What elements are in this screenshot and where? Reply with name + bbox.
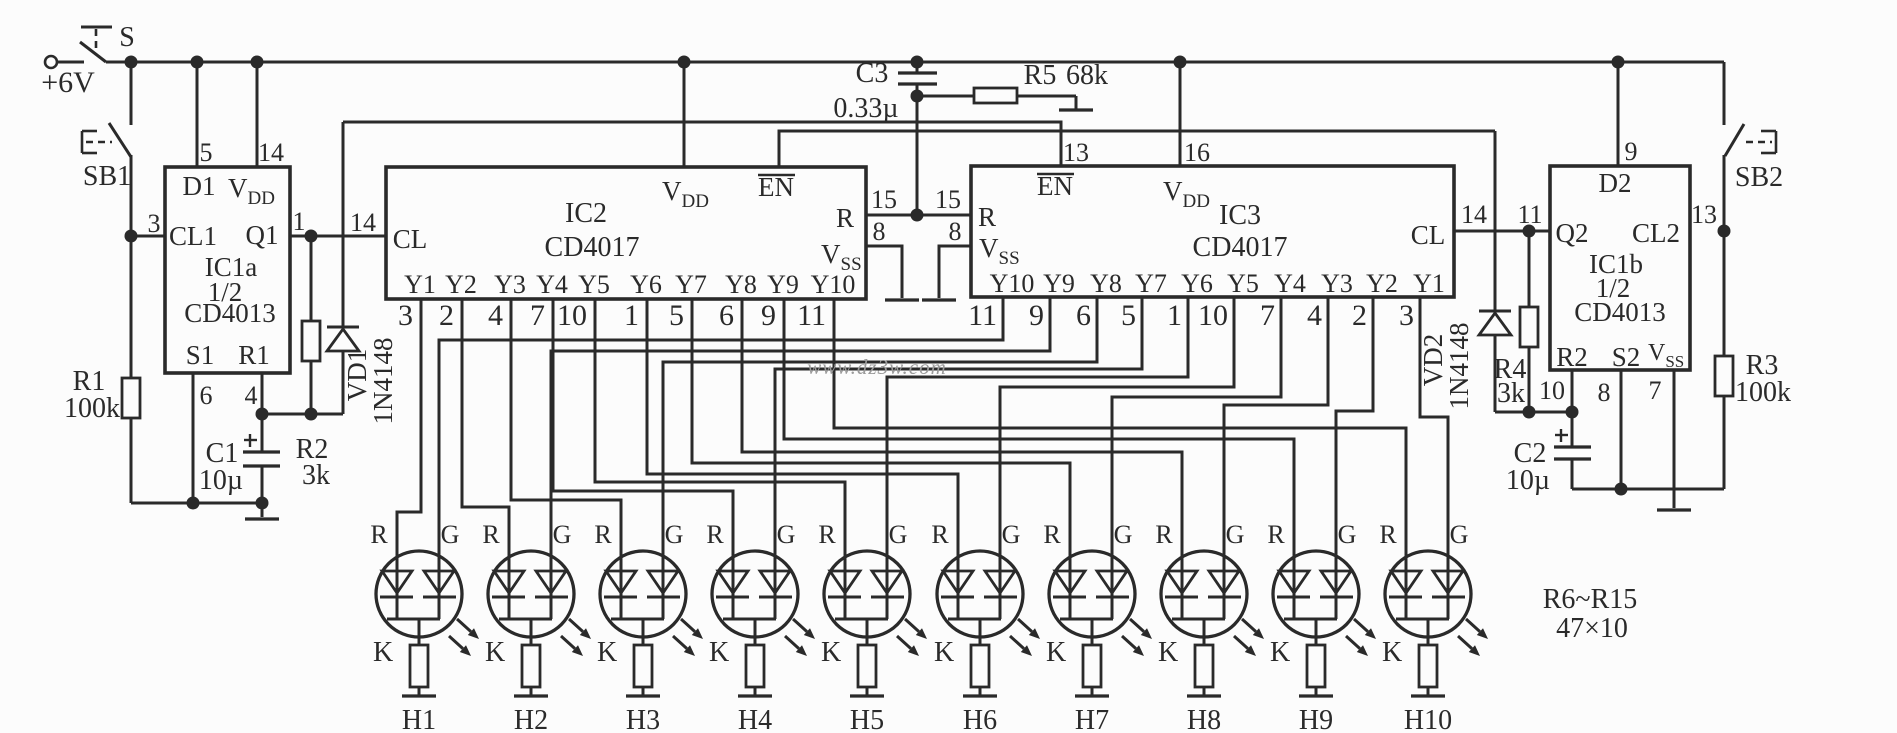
resistor R12 47 <box>1083 645 1101 687</box>
wire IC3 Y4 to H7.G <box>1112 297 1281 597</box>
wire SB1 lower to CL1 <box>130 155 133 236</box>
svg-text:R: R <box>818 520 836 549</box>
svg-text:H7: H7 <box>1075 705 1109 733</box>
light arrows H9 <box>1354 619 1368 632</box>
svg-text:H9: H9 <box>1299 705 1333 733</box>
resistor R10 47 <box>858 645 876 687</box>
wire IC3 Y5 to H6.G <box>1000 297 1234 597</box>
svg-text:3k: 3k <box>1497 378 1525 409</box>
pin 10 wire R2 (IC1b) <box>1571 370 1574 412</box>
svg-text:CD4013: CD4013 <box>184 298 276 328</box>
ground (H3) <box>626 694 660 697</box>
svg-text:C3: C3 <box>856 58 889 89</box>
wire IC2 Y9 to H9.R <box>784 299 1294 597</box>
svg-text:H8: H8 <box>1187 705 1221 733</box>
node CL1 <box>125 230 138 243</box>
wire IC3 Y8 to H3.G <box>663 297 1097 597</box>
svg-text:Y3: Y3 <box>1321 269 1353 298</box>
pin 9 wire D2 <box>1617 62 1620 166</box>
svg-text:H3: H3 <box>626 705 660 733</box>
svg-text:7: 7 <box>530 299 545 332</box>
svg-text:IC2: IC2 <box>565 198 607 229</box>
svg-text:3: 3 <box>398 299 413 332</box>
ground (IC1b VSS) <box>1657 508 1691 511</box>
wire reset node <box>262 413 343 416</box>
svg-text:2: 2 <box>1352 299 1367 332</box>
light arrows H2 <box>569 619 583 632</box>
LED H6 bicolor <box>937 551 1023 637</box>
svg-text:5: 5 <box>669 299 684 332</box>
wire Q1 to CL <box>290 235 386 238</box>
node supply-SB1 <box>125 56 138 69</box>
svg-text:G: G <box>1226 520 1245 549</box>
wire CL1 stub <box>131 235 165 238</box>
svg-text:K: K <box>934 637 954 668</box>
light arrows H5 <box>905 619 919 632</box>
svg-text:K: K <box>709 637 729 668</box>
svg-text:K: K <box>1046 637 1066 668</box>
light arrows H8 <box>1242 619 1256 632</box>
ground (R5) <box>1059 108 1093 111</box>
node C1-gnd <box>256 497 269 510</box>
svg-text:8: 8 <box>949 217 962 246</box>
svg-text:Y6: Y6 <box>1181 269 1213 298</box>
svg-text:Q2: Q2 <box>1556 218 1589 248</box>
resistor R11 47 <box>971 645 989 687</box>
wire IC3 VDD <box>1179 62 1182 166</box>
node supply-pin5 <box>191 56 204 69</box>
svg-text:EN: EN <box>1037 171 1073 201</box>
svg-text:H4: H4 <box>738 705 772 733</box>
pin 14 wire VDD <box>256 62 259 167</box>
svg-text:8: 8 <box>1598 378 1611 407</box>
svg-text:1: 1 <box>624 299 639 332</box>
wire IC3 Y2 to H9.G <box>1336 297 1373 597</box>
svg-text:1N4148: 1N4148 <box>1444 323 1474 410</box>
svg-text:Y4: Y4 <box>536 270 568 299</box>
svg-text:CD4017: CD4017 <box>545 232 640 263</box>
svg-text:SB2: SB2 <box>1735 162 1783 193</box>
LED H5 bicolor <box>824 551 910 637</box>
resistor R9 47 <box>746 645 764 687</box>
svg-text:47×10: 47×10 <box>1556 613 1628 644</box>
svg-text:SB1: SB1 <box>83 161 131 192</box>
svg-text:R: R <box>370 520 388 549</box>
resistor R5 68k <box>917 95 974 98</box>
svg-text:10: 10 <box>1539 376 1565 405</box>
svg-text:CL: CL <box>1411 220 1446 250</box>
svg-text:D1: D1 <box>183 171 216 201</box>
svg-text:G: G <box>889 520 908 549</box>
wire SB1 upper <box>130 62 133 125</box>
ground (H10) <box>1411 694 1445 697</box>
ground (IC3 VSS) <box>922 298 956 301</box>
svg-text:1: 1 <box>1167 299 1182 332</box>
svg-text:K: K <box>1270 637 1290 668</box>
svg-text:6: 6 <box>200 381 213 410</box>
wire IC2 Y5 to H5.R <box>595 299 845 597</box>
node supply-IC3VDD <box>1174 56 1187 69</box>
light arrows H7 <box>1130 619 1144 632</box>
resistor R8 47 <box>634 645 652 687</box>
resistor R15 47 <box>1419 645 1437 687</box>
svg-text:+6V: +6V <box>41 66 95 99</box>
light arrows H4 <box>793 619 807 632</box>
svg-text:Q1: Q1 <box>246 220 279 250</box>
svg-text:4: 4 <box>488 299 503 332</box>
svg-text:R2: R2 <box>1556 342 1588 372</box>
svg-text:EN: EN <box>758 172 794 202</box>
ground (H7) <box>1075 694 1109 697</box>
pin 7 wire VSS (IC1b) <box>1673 370 1676 508</box>
svg-text:15: 15 <box>871 185 897 214</box>
svg-text:G: G <box>1002 520 1021 549</box>
node R2-bottom <box>305 408 318 421</box>
svg-text:5: 5 <box>1121 299 1136 332</box>
LED H7 bicolor <box>1049 551 1135 637</box>
svg-text:Y5: Y5 <box>578 270 610 299</box>
svg-text:CD4017: CD4017 <box>1193 232 1288 263</box>
wire IC2 Y2 to H2.R <box>462 299 509 597</box>
wire IC2 EN to Q2 line <box>779 131 1495 167</box>
svg-text:G: G <box>553 520 572 549</box>
svg-text:R: R <box>482 520 500 549</box>
diode VD1 1N4148 <box>342 122 345 327</box>
diode VD2 1N4148 <box>1494 131 1497 311</box>
wire IC3 Y1 to H10.G <box>1420 297 1448 597</box>
resistor R14 47 <box>1307 645 1325 687</box>
svg-text:9: 9 <box>1029 299 1044 332</box>
light arrows H1 <box>457 619 471 632</box>
svg-text:R: R <box>1267 520 1285 549</box>
svg-text:13: 13 <box>1063 138 1089 167</box>
svg-text:Y1: Y1 <box>1413 269 1445 298</box>
svg-text:Y9: Y9 <box>1043 269 1075 298</box>
wire IC3 Y7 to H4.G <box>775 297 1142 597</box>
svg-text:R6~R15: R6~R15 <box>1543 584 1638 615</box>
svg-text:K: K <box>485 637 505 668</box>
svg-text:14: 14 <box>350 208 376 237</box>
svg-text:IC3: IC3 <box>1219 200 1261 231</box>
svg-text:G: G <box>441 520 460 549</box>
node pin10-C2 <box>1566 406 1579 419</box>
wire R3 bottom to C2 <box>1572 488 1724 491</box>
svg-text:2: 2 <box>439 299 454 332</box>
wire IC3 Y3 to H8.G <box>1224 297 1328 597</box>
ground (IC2 VSS) <box>885 298 919 301</box>
node supply-pin14 <box>251 56 264 69</box>
svg-text:11: 11 <box>797 299 826 332</box>
svg-text:8: 8 <box>873 217 886 246</box>
pin 4 wire R1 <box>261 373 264 414</box>
pin 6 wire S1 <box>192 373 195 503</box>
svg-text:5: 5 <box>200 138 213 167</box>
svg-text:Y6: Y6 <box>630 270 662 299</box>
node CL2-R3 <box>1718 225 1731 238</box>
svg-text:H10: H10 <box>1404 705 1452 733</box>
svg-text:G: G <box>665 520 684 549</box>
node S1-gnd <box>187 497 200 510</box>
wire IC2 Y4 to H4.R <box>553 299 733 597</box>
wire IC2 Y6 to H6.R <box>647 299 958 597</box>
ground (H1) <box>402 694 436 697</box>
svg-text:S2: S2 <box>1612 342 1641 372</box>
svg-text:Y7: Y7 <box>1135 269 1167 298</box>
svg-text:R5: R5 <box>1024 60 1057 91</box>
node supply-IC2VDD <box>678 56 691 69</box>
svg-text:R: R <box>706 520 724 549</box>
capacitor C3 0.33u <box>916 62 919 73</box>
svg-text:Y4: Y4 <box>1274 269 1306 298</box>
wire IC2 Y7 to H7.R <box>692 299 1070 597</box>
LED H4 bicolor <box>712 551 798 637</box>
svg-text:H1: H1 <box>402 705 436 733</box>
wire IC2 Y10 to H10.R <box>834 299 1406 597</box>
svg-text:14: 14 <box>258 138 284 167</box>
resistor R2 3k <box>310 236 313 321</box>
resistor R3 100k <box>1723 231 1726 356</box>
resistor R4 3k <box>1528 231 1531 307</box>
svg-text:10µ: 10µ <box>1506 465 1550 496</box>
svg-text:100k: 100k <box>1735 377 1791 408</box>
svg-text:H6: H6 <box>963 705 997 733</box>
capacitor C1 10u <box>261 414 264 452</box>
svg-text:11: 11 <box>968 299 997 332</box>
svg-text:Y3: Y3 <box>494 270 526 299</box>
wire IC2 Y1 to H1.R <box>397 299 421 597</box>
svg-text:Y9: Y9 <box>767 270 799 299</box>
wire IC2 Y8 to H8.R <box>742 299 1182 597</box>
svg-text:0.33µ: 0.33µ <box>833 93 898 124</box>
LED H8 bicolor <box>1161 551 1247 637</box>
light arrows H3 <box>681 619 695 632</box>
wire SB2 to CL2 <box>1723 155 1726 231</box>
wire top supply rail <box>106 61 1724 64</box>
svg-text:H5: H5 <box>850 705 884 733</box>
ground (H9) <box>1299 694 1333 697</box>
svg-text:CL2: CL2 <box>1632 218 1680 248</box>
ground (C1) <box>261 503 264 517</box>
svg-text:K: K <box>821 637 841 668</box>
wire IC2 Y3 to H3.R <box>511 299 621 597</box>
power terminal +6V <box>45 56 57 68</box>
svg-text:14: 14 <box>1461 200 1487 229</box>
resistor R7 47 <box>522 645 540 687</box>
svg-text:CL1: CL1 <box>169 221 217 251</box>
LED H9 bicolor <box>1273 551 1359 637</box>
ground (H6) <box>963 694 997 697</box>
light arrows H6 <box>1018 619 1032 632</box>
node C3-R5 <box>911 90 924 103</box>
svg-text:G: G <box>777 520 796 549</box>
capacitor C2 10u <box>1571 412 1574 447</box>
svg-text:R: R <box>1043 520 1061 549</box>
wire IC3 Y6 to H5.G <box>887 297 1188 597</box>
wire IC3 EN to Q1 line <box>343 122 1061 166</box>
light arrows H10 <box>1466 619 1480 632</box>
svg-text:10: 10 <box>1198 299 1228 332</box>
pin 8 VSS stub (IC3) <box>939 246 971 298</box>
svg-text:G: G <box>1338 520 1357 549</box>
svg-text:K: K <box>373 637 393 668</box>
svg-text:10: 10 <box>557 299 587 332</box>
svg-text:www.dz3w.com: www.dz3w.com <box>807 355 947 379</box>
svg-text:4: 4 <box>1307 299 1322 332</box>
ground (H8) <box>1187 694 1221 697</box>
pushbutton SB2 <box>1723 62 1726 125</box>
node Q1-R2 <box>305 230 318 243</box>
svg-text:G: G <box>1450 520 1469 549</box>
wire bottom-left ground bus <box>131 502 262 505</box>
svg-text:10µ: 10µ <box>199 465 243 496</box>
svg-text:R: R <box>1155 520 1173 549</box>
svg-text:1N4148: 1N4148 <box>368 338 398 425</box>
svg-text:Y10: Y10 <box>811 270 856 299</box>
wire VD2/R4 to pin10 <box>1495 411 1572 414</box>
node supply-C3 <box>911 56 924 69</box>
svg-text:Y7: Y7 <box>675 270 707 299</box>
svg-text:Y1: Y1 <box>404 270 436 299</box>
ground (H2) <box>514 694 548 697</box>
svg-text:R1: R1 <box>238 340 270 370</box>
svg-text:7: 7 <box>1260 299 1275 332</box>
node R1-pin4 <box>256 408 269 421</box>
node Q2-R4 <box>1523 225 1536 238</box>
LED H2 bicolor <box>488 551 574 637</box>
LED H1 bicolor <box>376 551 462 637</box>
svg-text:4: 4 <box>245 381 258 410</box>
svg-text:1: 1 <box>293 207 306 236</box>
svg-text:K: K <box>597 637 617 668</box>
svg-text:S: S <box>119 22 135 53</box>
svg-text:Y8: Y8 <box>725 270 757 299</box>
svg-text:D2: D2 <box>1599 168 1632 198</box>
pin 5 wire D1 <box>196 62 199 167</box>
svg-text:15: 15 <box>935 185 961 214</box>
pin 8 VSS stub (IC2) <box>866 246 902 298</box>
flip-flop IC1b 1/2 CD4013 <box>1550 166 1690 370</box>
svg-text:Y10: Y10 <box>990 269 1035 298</box>
svg-text:3: 3 <box>1399 299 1414 332</box>
svg-text:Y2: Y2 <box>1366 269 1398 298</box>
svg-text:R: R <box>978 202 996 232</box>
LED H10 bicolor <box>1385 551 1471 637</box>
resistor R6 47 <box>410 645 428 687</box>
svg-text:9: 9 <box>1625 137 1638 166</box>
svg-text:Y8: Y8 <box>1090 269 1122 298</box>
wire CL2 Q2 <box>1454 230 1550 233</box>
ground (H4) <box>738 694 772 697</box>
svg-text:K: K <box>1382 637 1402 668</box>
svg-text:6: 6 <box>1076 299 1091 332</box>
svg-text:Y5: Y5 <box>1227 269 1259 298</box>
svg-text:16: 16 <box>1184 138 1210 167</box>
switch S <box>80 42 106 62</box>
svg-text:S1: S1 <box>186 340 215 370</box>
node R-R <box>911 209 924 222</box>
counter IC3 CD4017 <box>971 166 1454 297</box>
svg-text:3k: 3k <box>302 460 330 491</box>
pushbutton SB1 <box>81 131 84 153</box>
svg-text:R: R <box>931 520 949 549</box>
svg-text:K: K <box>1158 637 1178 668</box>
node S2-C2 <box>1615 483 1628 496</box>
counter IC2 CD4017 <box>386 167 866 299</box>
pin 8 wire S2 (IC1b) <box>1620 370 1623 489</box>
wire IC2 VDD <box>683 62 686 167</box>
svg-text:68k: 68k <box>1066 60 1108 91</box>
resistor R13 47 <box>1195 645 1213 687</box>
ground (H5) <box>850 694 884 697</box>
svg-text:13: 13 <box>1691 200 1717 229</box>
svg-text:CD4013: CD4013 <box>1574 297 1666 327</box>
flip-flop IC1a 1/2 CD4013 <box>165 167 290 373</box>
svg-text:6: 6 <box>719 299 734 332</box>
svg-text:H2: H2 <box>514 705 548 733</box>
svg-text:CL: CL <box>393 224 428 254</box>
svg-text:9: 9 <box>761 299 776 332</box>
wire IC3 Y9 to H2.G <box>551 297 1050 597</box>
svg-text:R: R <box>836 203 854 233</box>
LED H3 bicolor <box>600 551 686 637</box>
svg-text:G: G <box>1114 520 1133 549</box>
svg-text:7: 7 <box>1649 376 1662 405</box>
svg-text:R: R <box>1379 520 1397 549</box>
svg-text:Y2: Y2 <box>445 270 477 299</box>
wire IC3 Y10 to H1.G <box>439 297 1003 597</box>
resistor R1 100k <box>130 236 133 378</box>
svg-text:3: 3 <box>148 209 161 238</box>
node supply-pin9 <box>1612 56 1625 69</box>
node R4-pin10 <box>1523 406 1536 419</box>
svg-text:100k: 100k <box>64 393 120 424</box>
svg-text:R: R <box>594 520 612 549</box>
pin 15 wire R-R <box>866 214 971 217</box>
